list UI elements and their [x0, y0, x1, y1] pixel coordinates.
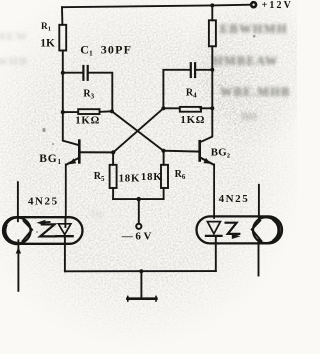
junction R3 left	[61, 110, 65, 114]
junction BG2 base node	[161, 149, 165, 153]
transistor BG1	[66, 141, 113, 218]
wire top supply rail	[62, 5, 251, 8]
optocoupler right light Z symbol	[226, 223, 240, 234]
wire R1 bottom to collector node	[63, 51, 80, 146]
svg-text:—6V: —6V	[121, 231, 154, 243]
svg-text:1KΩ: 1KΩ	[75, 115, 100, 127]
svg-text:4N25: 4N25	[219, 193, 250, 205]
junction R4 right	[210, 106, 214, 110]
junction bias center	[137, 197, 141, 201]
wire left opto collector stub	[17, 182, 19, 221]
wire cross-coupling diagonal D2 to BG1 base	[113, 108, 163, 152]
optocoupler left phototransistor wedge	[23, 221, 32, 241]
junction top rail right branch	[210, 3, 214, 7]
resistor R5	[110, 152, 117, 199]
optocoupler left light arrow	[36, 220, 49, 226]
wire R2 bottom to BG2 collector	[200, 46, 213, 142]
ground symbol	[127, 271, 156, 301]
wire right opto collector stub	[258, 185, 260, 220]
optocoupler left 4N25 body	[3, 217, 83, 244]
resistor R4	[163, 107, 212, 112]
svg-text:+12V: +12V	[262, 0, 293, 11]
wire cross-coupling diagonal D1 to BG2 base	[112, 111, 163, 150]
svg-text:1K: 1K	[40, 37, 55, 49]
wire bottom ground rail	[65, 270, 216, 272]
optocoupler left phototransistor circle	[5, 218, 31, 244]
junction C1 left	[61, 71, 65, 75]
capacitor C1	[63, 66, 113, 111]
resistor R6	[161, 151, 168, 199]
optocoupler right phototransistor wedge	[252, 221, 261, 241]
wire left rail top	[61, 7, 63, 25]
resistor R2	[209, 20, 216, 46]
optocoupler left LED	[56, 218, 72, 272]
svg-text:1KΩ: 1KΩ	[180, 114, 205, 126]
optocoupler left light Z symbol	[40, 224, 56, 236]
resistor R1	[59, 25, 66, 51]
junction C2 right	[210, 68, 214, 72]
terminal +12V	[251, 2, 256, 7]
terminal -6V	[136, 224, 141, 229]
svg-text:C130PF: C130PF	[80, 42, 132, 57]
wire -6V stem	[138, 199, 140, 224]
wire right opto emitter lead	[258, 240, 260, 276]
junction R4 left node	[161, 106, 165, 110]
optocoupler right light arrow	[232, 234, 241, 239]
junction node R3/C1 right	[110, 109, 114, 113]
wire bias rail to -6V	[113, 198, 164, 200]
junction ground	[139, 269, 143, 273]
optocoupler right 4N25 body	[197, 216, 283, 243]
wire right rail top	[211, 5, 213, 20]
resistor R3	[63, 109, 112, 114]
wire left opto emitter lead	[16, 240, 21, 290]
optocoupler right LED	[206, 222, 222, 272]
junction BG1 base node	[111, 150, 115, 154]
svg-text:4N25: 4N25	[28, 195, 59, 207]
svg-text:18K: 18K	[119, 172, 141, 184]
svg-text:18K: 18K	[141, 171, 163, 183]
transistor BG2	[163, 141, 214, 218]
capacitor C2	[163, 63, 212, 108]
decorative scan bleed-through (not labelled circuit elements)	[213, 22, 291, 123]
optocoupler right phototransistor circle	[253, 217, 279, 243]
